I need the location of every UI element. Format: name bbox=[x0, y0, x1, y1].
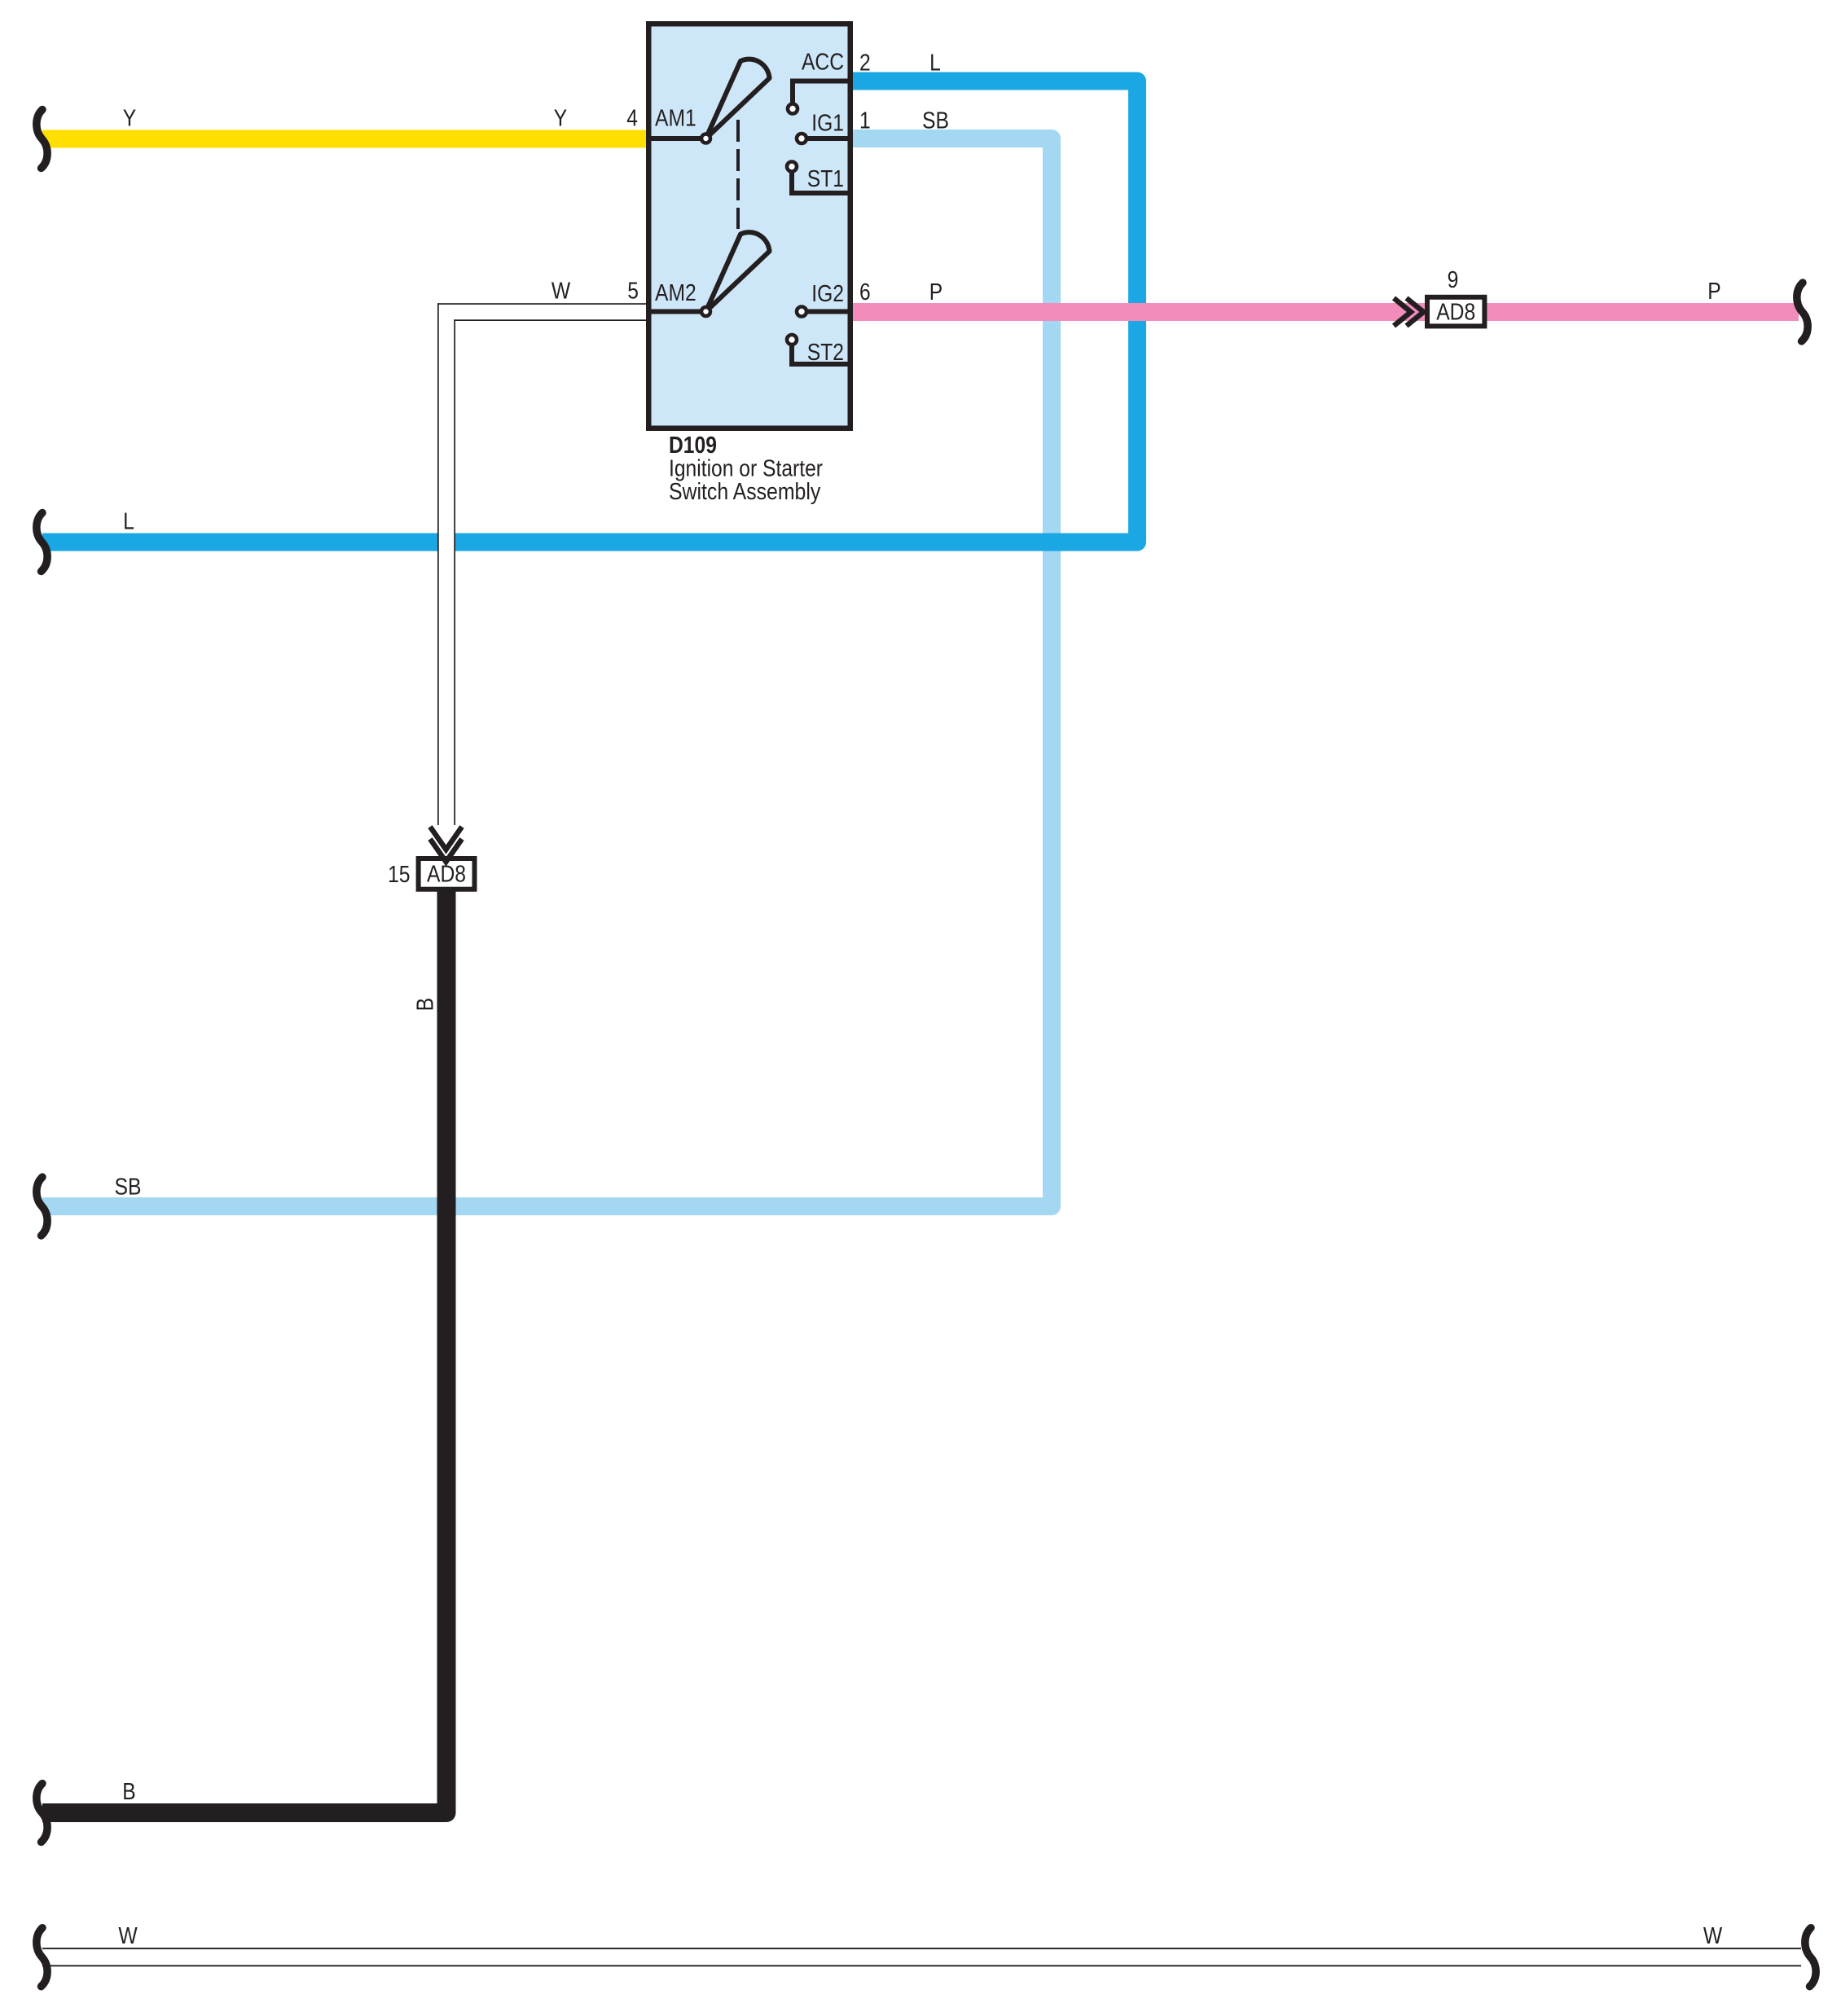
wire W white hollow: from AM2 pin 5 left then down to AD8 bbox=[437, 303, 652, 825]
label B rotated on vertical wire bbox=[413, 998, 439, 1011]
connector AD8 box (right), pin 9 bbox=[1427, 297, 1484, 327]
break symbol yellow wire left bbox=[37, 110, 47, 169]
IG1 terminal wire bbox=[802, 136, 850, 141]
svg-text:Ignition or Starter: Ignition or Starter bbox=[669, 456, 823, 482]
AM1 pivot contact bbox=[701, 134, 710, 143]
svg-text:AM1: AM1 bbox=[655, 106, 696, 132]
connector AD8 box (left), pin 15 bbox=[419, 859, 475, 889]
IG1 contact bbox=[797, 134, 806, 143]
svg-text:B: B bbox=[413, 998, 439, 1011]
svg-text:W: W bbox=[118, 1923, 138, 1949]
svg-text:B: B bbox=[122, 1779, 135, 1805]
wire L dark blue: from ACC pin 2 right, down, to left edge bbox=[42, 81, 1137, 542]
svg-text:L: L bbox=[123, 509, 134, 535]
svg-text:AD8: AD8 bbox=[1436, 300, 1475, 326]
AM2 terminal wire bbox=[651, 310, 705, 314]
svg-text:W: W bbox=[1703, 1923, 1723, 1949]
break symbol W wire bottom left bbox=[37, 1928, 47, 1987]
dashed link between switch poles bbox=[736, 120, 740, 229]
svg-text:Y: Y bbox=[554, 106, 567, 132]
svg-text:Y: Y bbox=[123, 106, 136, 132]
wire B black: from AD8 down then left to left edge bbox=[42, 889, 446, 1813]
break symbol B wire left bbox=[37, 1784, 47, 1843]
switch lever AM1 bbox=[706, 59, 770, 138]
svg-text:1: 1 bbox=[859, 108, 871, 134]
IG2 contact bbox=[797, 307, 806, 317]
ST2 contact bbox=[787, 335, 797, 345]
wire Y yellow: left edge to AM1 pin 4 bbox=[42, 130, 649, 148]
switch lever AM2 bbox=[706, 232, 770, 311]
svg-text:D109: D109 bbox=[669, 433, 717, 459]
svg-text:ST1: ST1 bbox=[807, 166, 844, 192]
svg-text:4: 4 bbox=[626, 106, 638, 132]
break symbol L wire left bbox=[37, 513, 47, 572]
svg-text:ST2: ST2 bbox=[807, 340, 844, 366]
svg-text:P: P bbox=[1707, 279, 1720, 305]
wire W white hollow bottom: full width bbox=[42, 1948, 1801, 1966]
svg-text:2: 2 bbox=[859, 51, 871, 77]
svg-text:15: 15 bbox=[388, 862, 410, 888]
IG2 terminal wire bbox=[802, 310, 850, 314]
ignition switch D109 box bbox=[648, 24, 850, 428]
svg-text:IG1: IG1 bbox=[811, 111, 844, 137]
svg-text:SB: SB bbox=[922, 108, 949, 134]
svg-text:W: W bbox=[551, 279, 571, 305]
svg-text:6: 6 bbox=[859, 279, 871, 305]
AM2 pivot contact bbox=[701, 307, 710, 316]
AM1 terminal wire bbox=[651, 136, 705, 141]
break symbol P wire right bbox=[1797, 283, 1808, 341]
svg-text:IG2: IG2 bbox=[811, 281, 844, 307]
break symbol W wire bottom right bbox=[1805, 1928, 1816, 1987]
wire P pink: from IG2 pin 6 to right edge bbox=[850, 303, 1799, 321]
svg-text:SB: SB bbox=[115, 1175, 142, 1201]
ST1 terminal wire bbox=[792, 168, 850, 193]
svg-text:L: L bbox=[929, 51, 941, 77]
break symbol SB wire left bbox=[37, 1177, 47, 1236]
svg-text:9: 9 bbox=[1448, 267, 1459, 293]
connector chevrons into AD8 (right) bbox=[1394, 298, 1411, 326]
svg-text:5: 5 bbox=[627, 279, 639, 305]
ST1 contact bbox=[787, 162, 797, 172]
connector chevrons into AD8 (left, downward) bbox=[430, 827, 462, 850]
ST2 terminal wire bbox=[792, 341, 850, 364]
ACC terminal wire bbox=[793, 81, 850, 104]
wire SB light blue: from IG1 pin 1 right, down, to left edge bbox=[42, 138, 1052, 1206]
svg-text:P: P bbox=[929, 279, 943, 305]
svg-text:AM2: AM2 bbox=[655, 280, 696, 306]
svg-text:Switch Assembly: Switch Assembly bbox=[669, 479, 821, 505]
svg-text:ACC: ACC bbox=[802, 50, 844, 76]
ACC contact bbox=[788, 104, 798, 114]
